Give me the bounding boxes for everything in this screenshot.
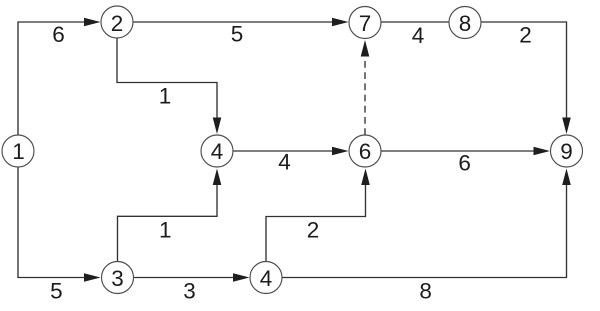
svg-text:6: 6 bbox=[52, 22, 65, 47]
svg-text:1: 1 bbox=[12, 139, 25, 164]
svg-text:4: 4 bbox=[260, 266, 273, 291]
svg-text:4: 4 bbox=[412, 23, 425, 48]
svg-text:3: 3 bbox=[111, 266, 124, 291]
svg-text:6: 6 bbox=[359, 139, 372, 164]
svg-text:8: 8 bbox=[459, 11, 472, 36]
svg-text:1: 1 bbox=[159, 84, 172, 109]
svg-text:5: 5 bbox=[231, 22, 244, 47]
svg-text:2: 2 bbox=[307, 217, 320, 242]
svg-text:8: 8 bbox=[419, 279, 432, 304]
svg-text:4: 4 bbox=[211, 139, 224, 164]
svg-text:7: 7 bbox=[359, 11, 372, 36]
svg-text:2: 2 bbox=[111, 11, 124, 36]
svg-text:2: 2 bbox=[519, 22, 532, 47]
svg-text:9: 9 bbox=[560, 139, 573, 164]
svg-text:5: 5 bbox=[50, 278, 63, 303]
svg-text:1: 1 bbox=[159, 217, 172, 242]
svg-text:4: 4 bbox=[278, 150, 291, 175]
svg-text:6: 6 bbox=[458, 150, 471, 175]
svg-text:3: 3 bbox=[183, 279, 196, 304]
